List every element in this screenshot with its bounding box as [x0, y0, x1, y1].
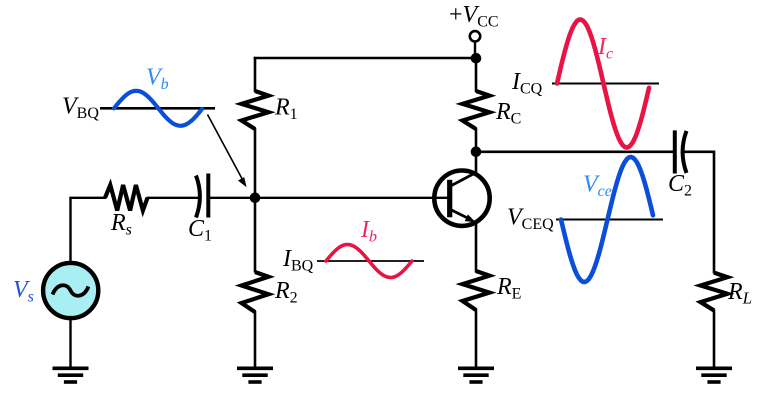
wire R1 to node B — [254, 128, 257, 273]
ground (R2) — [237, 368, 273, 382]
source Vs circle — [43, 263, 98, 318]
svg-text:Vb: Vb — [146, 65, 169, 94]
waveform Ic sine — [557, 20, 649, 148]
svg-text:C2: C2 — [668, 171, 692, 200]
arrow Vb to node B head — [238, 177, 247, 187]
capacitor C2 straight plate — [673, 130, 677, 173]
svg-text:RL: RL — [727, 279, 752, 308]
svg-text:Ic: Ic — [597, 34, 613, 63]
svg-text:VBQ: VBQ — [62, 94, 99, 123]
wire emitter down — [475, 221, 478, 273]
wire VCC tick — [474, 42, 476, 59]
svg-text:Rs: Rs — [110, 210, 132, 239]
ground (RE) — [458, 368, 494, 382]
arrow Vb to node B line — [208, 115, 244, 181]
resistor Rs — [105, 185, 148, 211]
waveform Vce axis line — [556, 219, 663, 221]
resistor RL — [701, 273, 728, 311]
svg-text:RC: RC — [495, 99, 521, 128]
+VCC terminal circle — [470, 31, 480, 41]
waveform Vce sine — [561, 157, 653, 282]
resistor RC — [463, 91, 490, 129]
wire Vs to ground — [69, 318, 71, 368]
wire R2 to ground — [254, 311, 257, 368]
wire RC to collector node — [475, 128, 478, 152]
transistor Q1 circle — [434, 171, 489, 226]
svg-text:IBQ: IBQ — [282, 246, 314, 275]
waveform Vb sine — [114, 91, 202, 126]
wire VCC to RC — [475, 58, 478, 92]
resistor RE — [463, 271, 490, 310]
waveform Vb axis line — [100, 107, 215, 110]
svg-text:R1: R1 — [274, 95, 298, 124]
svg-text:RE: RE — [496, 274, 521, 303]
wire collector rail to C2 — [476, 151, 673, 154]
wire collector into transistor — [475, 152, 478, 173]
svg-text:Ib: Ib — [360, 217, 377, 246]
resistor R1 — [242, 91, 269, 129]
transistor Q1 emitter stroke — [452, 210, 471, 219]
capacitor C1 straight plate — [206, 174, 210, 218]
transistor Q1 collector stroke — [452, 172, 478, 186]
wire input left: Vs top to Rs — [71, 198, 107, 262]
waveform Ic axis line — [552, 83, 659, 85]
ground (RL) — [696, 368, 732, 382]
node C junction dot — [471, 147, 482, 158]
transistor Q1 base bar — [447, 180, 452, 218]
source Vs sine symbol — [53, 285, 89, 295]
wire RL to ground — [713, 309, 716, 368]
waveform Ib axis line — [317, 260, 424, 262]
node B junction dot — [250, 193, 261, 204]
capacitor C1 curved plate — [196, 176, 200, 218]
svg-text:C1: C1 — [188, 216, 212, 245]
wire RE to ground — [475, 309, 478, 368]
svg-text:R2: R2 — [274, 278, 298, 307]
wire R1 branch vertical — [254, 57, 257, 92]
svg-text:ICQ: ICQ — [511, 69, 543, 98]
resistor R2 — [242, 272, 269, 312]
capacitor C2 curved plate — [683, 131, 687, 173]
transistor Q1 emitter arrowhead — [465, 214, 476, 222]
svg-text:+VCC: +VCC — [449, 2, 499, 31]
waveform Ib sine — [326, 245, 412, 278]
wire top rail — [254, 57, 476, 60]
ground (Vs) — [53, 368, 89, 382]
node VCC junction dot — [471, 53, 482, 64]
svg-text:VCEQ: VCEQ — [507, 205, 554, 234]
wire C1 to base — [208, 197, 447, 199]
wire Rs to C1 — [147, 197, 201, 199]
wire C2 to RL — [681, 152, 714, 274]
svg-text:Vs: Vs — [13, 277, 34, 306]
svg-text:Vce: Vce — [583, 172, 612, 201]
